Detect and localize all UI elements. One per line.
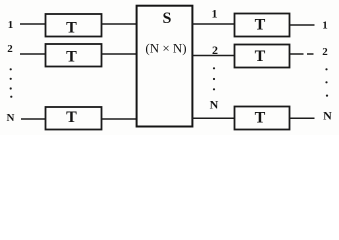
- right ellipsis dots: [325, 68, 328, 96]
- svg-text:T: T: [255, 109, 266, 126]
- svg-text:T: T: [255, 17, 266, 34]
- transform block TN left: [46, 107, 102, 130]
- wire S to right T1: [192, 23, 235, 25]
- left ellipsis dots: [10, 68, 13, 98]
- wire right T1 to output 1: [290, 24, 315, 26]
- svg-text:N: N: [210, 98, 219, 112]
- transform block T1 right: [235, 14, 290, 37]
- transform block TN right: [235, 107, 290, 130]
- switching matrix S block: [137, 6, 193, 127]
- wire inputN to TN: [21, 118, 46, 120]
- svg-text:N: N: [323, 109, 332, 123]
- wire T2 to S: [102, 53, 137, 55]
- svg-text:1: 1: [212, 6, 218, 20]
- wire S to right TN: [192, 117, 235, 119]
- wire right TN to output N: [290, 117, 315, 119]
- svg-text:T: T: [255, 48, 266, 65]
- svg-text:N: N: [7, 112, 15, 124]
- svg-text:1: 1: [322, 20, 328, 32]
- svg-text:S: S: [163, 10, 172, 27]
- svg-text:T: T: [66, 49, 77, 66]
- wire S to right T2: [192, 55, 235, 57]
- wire T1 to S: [102, 23, 137, 25]
- wire input2 to T2: [20, 53, 46, 55]
- svg-text:T: T: [66, 19, 77, 36]
- transform block T1 left: [46, 14, 102, 37]
- middle ellipsis dots: [213, 67, 215, 90]
- svg-text:(N × N): (N × N): [145, 41, 186, 56]
- wire input1 to T1: [20, 23, 46, 25]
- svg-text:2: 2: [322, 46, 328, 58]
- svg-text:T: T: [66, 109, 77, 126]
- svg-text:2: 2: [7, 43, 13, 55]
- transform block T2 left: [46, 44, 102, 67]
- wire TN to S: [102, 118, 137, 120]
- svg-text:1: 1: [8, 19, 14, 31]
- transform block T2 right: [235, 45, 290, 68]
- wire right T2 to output 2: [290, 53, 304, 55]
